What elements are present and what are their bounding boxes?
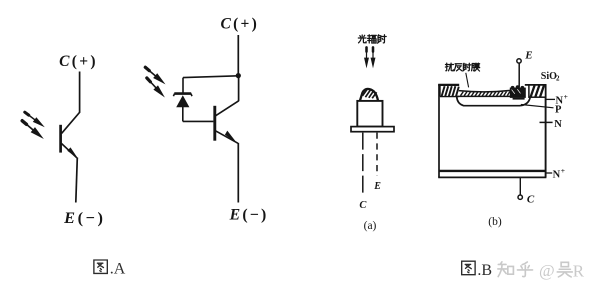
SiO2 layer block (hatched, top right) (529, 85, 546, 97)
svg-text:C: C (527, 193, 535, 205)
phototransistor V1 emitter arrowhead (67, 147, 78, 159)
svg-text:N: N (554, 119, 562, 130)
leader line to P (521, 105, 554, 108)
light arrow 1 into VD (143, 65, 167, 87)
film strip bottom boundary (silicon surface) (457, 95, 525, 97)
svg-text:+: + (561, 166, 565, 175)
collector terminal circle (518, 195, 522, 199)
caption 图.B (462, 261, 492, 279)
chip body left edge (438, 84, 440, 177)
leader line to N+ (bottom) (546, 172, 552, 174)
light arrow down 1 (364, 47, 369, 68)
svg-text:R: R (573, 261, 585, 280)
light arrow 2 into V1 (20, 118, 46, 141)
svg-text:E(−): E(−) (63, 208, 105, 227)
wire: collector diagonal of V1 (62, 112, 80, 134)
wire: collector vertical of V2 to junction (238, 74, 240, 101)
collector lead wire C (519, 178, 521, 195)
film strip top boundary over recess (459, 90, 511, 91)
lead C (dashed, left) (362, 133, 364, 197)
svg-text:C: C (359, 200, 367, 211)
svg-text:N: N (553, 169, 561, 180)
transistor V2 collector diagonal (216, 101, 239, 116)
svg-text:E: E (524, 50, 532, 62)
lead E (dashed, right) (376, 133, 378, 176)
light arrow 2 into VD (145, 76, 168, 100)
svg-text:@: @ (539, 261, 555, 280)
transistor V2 emitter diagonal (216, 131, 238, 143)
emitter lead wire E (518, 63, 520, 87)
SiO2 block hatching (531, 85, 544, 96)
wire: vertical down to photodiode cathode (182, 78, 184, 93)
svg-text:2: 2 (556, 75, 560, 83)
junction node dot (236, 73, 241, 78)
light arrow down 2 (371, 47, 376, 68)
leader line from 抗反射膜 to film (466, 73, 469, 88)
wire: horizontal to base of V2 (183, 120, 214, 122)
antireflection film left block outline (440, 86, 459, 97)
photodiode VD cathode bar end ticks (173, 94, 192, 97)
transistor V2 base bar (213, 106, 216, 141)
phototransistor V1 base bar (59, 125, 62, 153)
svg-text:SiO: SiO (541, 71, 557, 82)
svg-text:E(−): E(−) (229, 206, 269, 223)
photodiode VD triangle (anode, pointing up) (176, 95, 189, 107)
label 抗反射膜 (antireflection film) (445, 63, 479, 71)
film strip hatching slashes (461, 92, 510, 97)
N region tick mark (540, 121, 553, 123)
wire: emitter vertical of V1 (76, 158, 78, 203)
svg-text:(a): (a) (364, 220, 377, 232)
chip top edge right segment (525, 84, 547, 86)
phototransistor V1 emitter diagonal (62, 144, 77, 158)
svg-text:C(+): C(+) (220, 16, 259, 33)
emitter terminal circle (517, 59, 521, 63)
watermark 知乎 @吴R (498, 262, 572, 277)
wire: horizontal from junction to diode branch (183, 76, 238, 78)
emitter metal contact (dark block) (510, 85, 526, 99)
svg-text:E: E (373, 181, 381, 192)
wire: emitter vertical of V2 (237, 143, 239, 203)
svg-text:P: P (555, 104, 562, 115)
package can body (357, 101, 382, 127)
wire: from diode anode down (182, 107, 184, 122)
svg-text:(b): (b) (488, 216, 502, 228)
chip top edge left segment (438, 84, 459, 86)
photodiode VD cathode bar (174, 92, 191, 95)
svg-text:.B: .B (477, 262, 492, 279)
N+ substrate strip line (439, 170, 546, 172)
wire: collector vertical of V1 (79, 72, 81, 113)
package lens dome with hatching (360, 89, 378, 101)
label 光辐射 (light radiation) (358, 35, 386, 43)
light arrow 1 into V1 (23, 110, 47, 130)
package flange (351, 127, 394, 132)
svg-text:C(+): C(+) (59, 53, 98, 70)
transistor V2 emitter arrowhead (225, 131, 237, 143)
P-well boundary (rounded) (457, 97, 531, 106)
caption 图.A (94, 260, 126, 278)
wire: top vertical from C to junction (237, 35, 239, 76)
leader line to N+ (top) (546, 98, 555, 100)
svg-text:.A: .A (110, 261, 126, 278)
svg-text:+: + (564, 92, 568, 101)
antireflection film left block hatching (442, 86, 459, 96)
chip body bottom edge (438, 176, 546, 178)
chip body right edge (545, 84, 547, 177)
